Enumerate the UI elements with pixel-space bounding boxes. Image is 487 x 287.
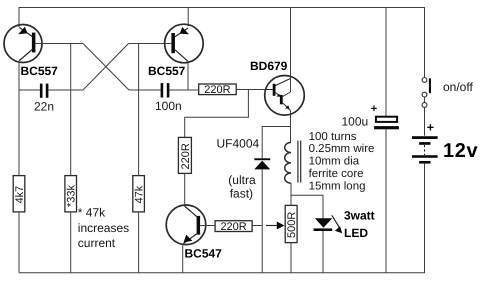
label UF4004: [217, 137, 260, 151]
transistor Q2 BC557: [165, 8, 204, 63]
capacitor C2 100n: [161, 83, 188, 97]
resistor R3 47k: [133, 176, 146, 212]
label 100n: [155, 99, 182, 113]
svg-text:3watt: 3watt: [344, 209, 375, 223]
resistor R7 220R (horizontal, bottom): [215, 221, 252, 233]
label (ultra fast): [228, 173, 256, 201]
transistor Q3 BC547: [166, 205, 206, 245]
wire BC547 emitter to rail: [182, 244, 184, 273]
svg-text:10mm dia: 10mm dia: [309, 156, 360, 168]
wire node Q2 collector to R4: [188, 89, 199, 91]
wire BD679 collector to rail: [290, 8, 292, 93]
svg-text:fast): fast): [230, 187, 253, 201]
svg-text:BC557: BC557: [148, 64, 186, 78]
wire junction down to R6: [290, 195, 292, 205]
svg-text:*33k: *33k: [66, 184, 78, 207]
inductor L1: [285, 141, 301, 184]
svg-text:* 47k: * 47k: [78, 206, 106, 220]
wire node to R5 (down, left, down): [185, 90, 249, 138]
label coil spec: [309, 131, 375, 193]
svg-text:+: +: [427, 121, 434, 135]
svg-text:BC547: BC547: [185, 246, 223, 260]
wire R6 bottom: [290, 243, 292, 273]
svg-text:15mm long: 15mm long: [309, 180, 366, 192]
wire bottom 0V rail: [19, 164, 425, 273]
svg-text:4k7: 4k7: [14, 186, 26, 204]
label 22n: [34, 100, 54, 114]
label BC547: [185, 246, 223, 260]
capacitor C1 22n: [19, 84, 83, 98]
wire BC547 base: [200, 225, 215, 227]
battery B1 12v: [412, 121, 438, 164]
svg-text:increases: increases: [78, 221, 129, 235]
label BC557 (Q1): [21, 64, 59, 78]
resistor R6 500R (vertical): [285, 205, 298, 242]
label note 47k increases current: [78, 206, 129, 251]
svg-text:+: +: [371, 103, 377, 115]
svg-text:100u: 100u: [342, 115, 369, 129]
wire cross-coupling diagonal A: [83, 44, 129, 91]
resistor R5 220R (vertical): [178, 137, 191, 173]
wire 47k top: [138, 44, 140, 176]
svg-text:100n: 100n: [155, 99, 182, 113]
LED D2 3watt: [314, 215, 343, 272]
svg-text:220R: 220R: [220, 221, 246, 233]
wire R5 to BC547 collector: [184, 173, 186, 205]
capacitor C3 100u electrolytic: [374, 8, 399, 273]
wire R7 to diode line: [252, 225, 262, 227]
wire R4 to BD679 base: [236, 89, 265, 91]
svg-text:12v: 12v: [443, 140, 478, 162]
wire top supply rail: [19, 8, 425, 78]
svg-text:500R: 500R: [286, 212, 298, 238]
transistor U1 BD679 darlington: [265, 76, 305, 116]
wire 33k bottom: [70, 212, 72, 273]
wire Q2 base line: [129, 43, 172, 45]
wire BD679 emitter down: [290, 111, 292, 143]
wire Q1 collector down left column: [18, 61, 20, 176]
transistor Q1 BC557: [4, 25, 42, 63]
svg-text:UF4004: UF4004: [217, 137, 260, 151]
label on/off: [443, 80, 473, 94]
resistor R4 220R (horizontal, top): [199, 84, 237, 96]
arrow base drive pointer: [266, 222, 285, 230]
svg-text:LED: LED: [344, 226, 368, 240]
svg-text:current: current: [78, 236, 116, 250]
svg-text:22n: 22n: [34, 100, 54, 114]
wire 100n feed: [129, 89, 161, 91]
wire diode tap: [262, 127, 290, 159]
resistor R1 4k7: [13, 176, 26, 212]
svg-text:ferrite core: ferrite core: [309, 168, 364, 180]
label 3watt LED: [344, 209, 375, 240]
svg-text:220R: 220R: [180, 143, 192, 169]
label 12v: [443, 140, 478, 162]
label BC557 (Q2): [148, 64, 186, 78]
wire Q2 collector: [187, 61, 189, 90]
resistor R2 33k: [65, 176, 78, 212]
svg-text:100 turns: 100 turns: [309, 131, 357, 143]
label BD679: [250, 59, 288, 73]
svg-text:220R: 220R: [204, 84, 230, 96]
svg-text:47k: 47k: [133, 185, 145, 203]
svg-text:(ultra: (ultra: [228, 173, 256, 187]
wire 4k7 bottom: [18, 212, 20, 273]
label 100u plus: [342, 103, 378, 129]
wire cross-coupling diagonal B: [83, 44, 129, 91]
diode D1 UF4004: [254, 158, 270, 272]
wire 33k top: [70, 44, 72, 176]
switch S1 on/off: [422, 78, 431, 136]
wire Q1 base line: [35, 43, 83, 45]
svg-text:0.25mm wire: 0.25mm wire: [309, 143, 375, 155]
svg-text:BC557: BC557: [21, 64, 59, 78]
wire coil bottom junction: [291, 183, 323, 218]
svg-text:BD679: BD679: [250, 59, 288, 73]
wire 47k bottom: [138, 212, 140, 273]
svg-text:on/off: on/off: [443, 80, 473, 94]
